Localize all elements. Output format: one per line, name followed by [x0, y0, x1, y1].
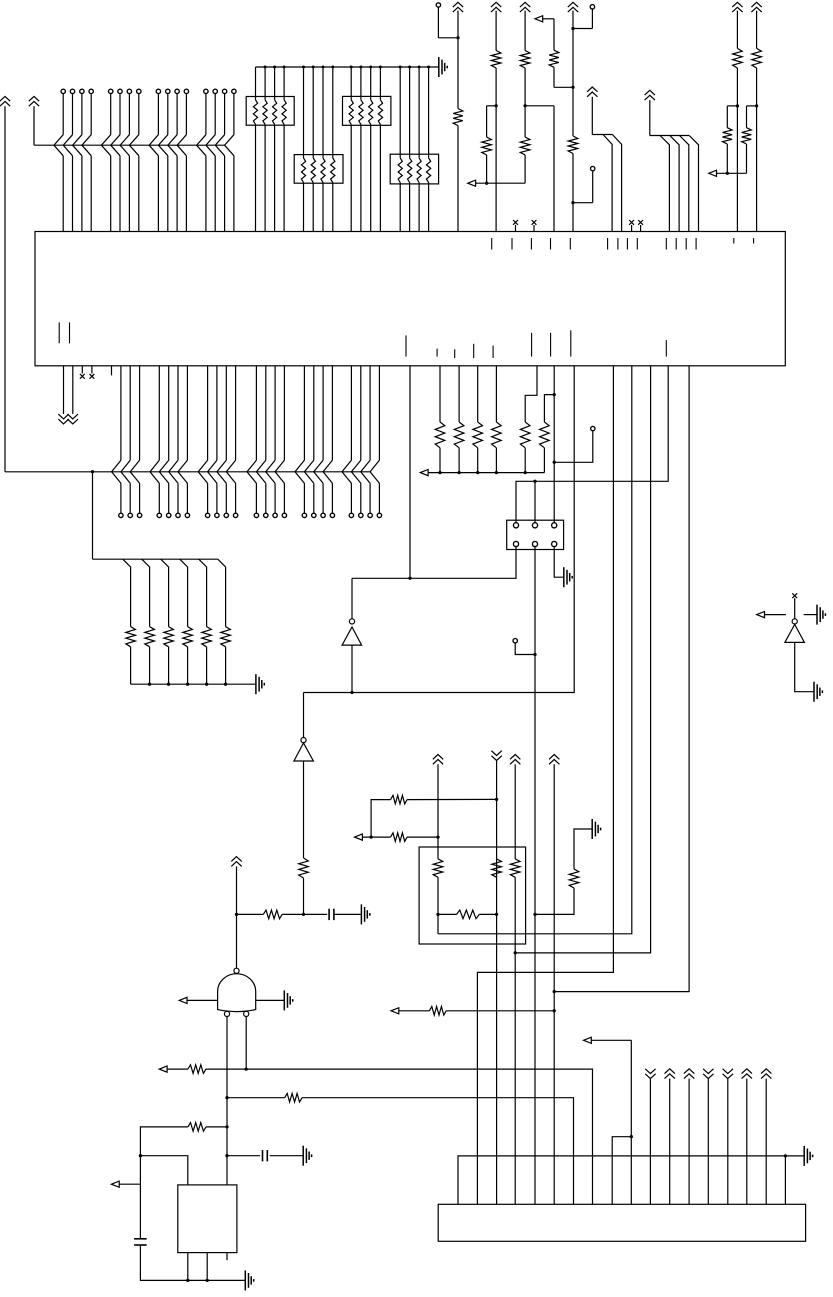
wire bus1 horizontal rail	[34, 144, 225, 146]
node junction V5 branch	[736, 104, 739, 107]
resistor RN1-2 wire	[263, 66, 267, 232]
node junction V1/J2	[456, 36, 459, 39]
power flag VEE bottom 5	[723, 1069, 733, 1205]
wire with bus entry U1 to P2-22	[361, 366, 370, 513]
wire U1 pin668 to X1	[516, 366, 668, 523]
resistor RN2-4 wire	[331, 66, 335, 232]
power flag VCC V3	[520, 2, 530, 12]
wire U5 input B down	[245, 1017, 248, 1071]
wire V6 upper	[756, 11, 758, 49]
resistor RN1-4 wire	[282, 66, 286, 232]
wire inputA to pin574 net	[227, 1097, 285, 1099]
wire with bus entry U1 to P2-10	[217, 366, 226, 513]
resistor R18	[473, 422, 483, 448]
resistor network RN4 box	[390, 154, 438, 184]
resistor RN2-2 wire	[311, 66, 315, 232]
ground GND C2	[303, 1146, 311, 1166]
wire R5 to net arrow	[524, 155, 526, 183]
wire with bus entry P1-3 to U1	[73, 94, 82, 232]
connector pin circle J4	[573, 166, 595, 202]
connector pin circle P2-16	[302, 513, 306, 517]
wire fan2 branch pin 679	[670, 136, 679, 232]
wire gnd chain	[574, 829, 592, 869]
power flag VCC bottom 7	[761, 1069, 771, 1205]
resistor network RN2 box	[294, 155, 343, 184]
wire X1-4 down to inverter net	[352, 547, 516, 579]
ground GND X1-6	[564, 567, 572, 587]
wire with bus entry P1-13 to U1	[197, 94, 206, 232]
power flag VCC col554	[549, 755, 559, 1205]
wire U1 pin410 down	[409, 366, 411, 579]
connector pin circle P1-3	[80, 89, 84, 93]
pin number tick bottom x532	[531, 333, 533, 357]
node junction col496/R24	[495, 798, 498, 801]
node junction J6/X1-5 net	[533, 653, 536, 656]
wire with bus entry P1-6 to U1	[111, 94, 120, 232]
wire fan1 branch pin 621	[612, 135, 621, 232]
wire U1 pin554 down	[553, 366, 555, 523]
wire with bus entry P1-8 to U1	[129, 94, 138, 232]
power flag VCC U5	[231, 857, 241, 969]
wire with bus entry U1 to P2-13	[256, 366, 265, 513]
connector pin circle P2-1	[119, 513, 123, 517]
wire U1 pin537 jog	[525, 366, 537, 422]
wire C1 to gnd	[334, 913, 362, 915]
jumper pin circle X1-2	[532, 523, 537, 528]
wire branch to pin9	[612, 1137, 631, 1205]
group box middle	[419, 847, 525, 944]
resistor R1	[453, 109, 463, 126]
wire with bus entry U1 to P2-15	[275, 366, 284, 513]
connector pin circle P1-11	[175, 89, 179, 93]
wire pulldown gnd rail	[131, 683, 256, 686]
crystal oscillator Y1 body	[178, 1185, 237, 1253]
wire col515 lower	[514, 877, 516, 1204]
resistor R16	[435, 422, 445, 448]
pin number tick top x676	[675, 238, 677, 250]
power flag VEE bottom 4	[703, 1069, 713, 1205]
wire with bus entry U1 to P2-11	[226, 366, 235, 513]
wire R20 to rail	[524, 448, 527, 474]
connector pin circle P2-12	[254, 513, 258, 517]
net arrow left y1011	[391, 1008, 429, 1014]
wire V2 upper	[495, 11, 497, 51]
power flag VCC bottom 2	[665, 1069, 675, 1205]
wire tap R12	[123, 559, 131, 626]
wire with bus entry U1 to P2-5	[159, 366, 168, 513]
connector pin circle P2-19	[330, 513, 334, 517]
node junction input A net2	[225, 1125, 228, 1128]
resistor R30	[569, 869, 579, 888]
resistor R25	[391, 833, 408, 842]
connector pin circle P2-14	[273, 513, 277, 517]
wire R17 to gnd rail	[225, 647, 227, 684]
node junction col554 branch	[553, 990, 556, 993]
resistor R28	[510, 859, 520, 877]
ground GND C1	[361, 904, 369, 924]
node junction V4/J3	[571, 27, 574, 30]
wire U4 input to gnd	[795, 642, 814, 691]
resistor RN3-2 wire	[359, 66, 363, 232]
pin number tick top x550	[550, 238, 552, 250]
wire tap R17	[218, 559, 226, 626]
no-connect stub U1 bottom a	[80, 366, 85, 379]
pin number tick top x618	[617, 238, 619, 250]
wire tap R14	[161, 559, 169, 626]
resistor R33 wire	[206, 1126, 227, 1128]
pin number tick top x686	[685, 238, 687, 250]
power flag VCC V5	[732, 2, 742, 12]
resistor R13	[145, 627, 155, 647]
resistor R15	[183, 627, 193, 647]
connector pin circle P1-9	[156, 89, 160, 93]
power flag VEE col496	[491, 751, 501, 1205]
wire V1 to U1	[457, 126, 459, 232]
wire V4 upper	[572, 11, 574, 136]
power flag VCC far left	[0, 96, 10, 471]
net arrow left U4	[757, 612, 786, 618]
power flag VCC fan1	[587, 87, 597, 135]
power flag VEE below U1 a	[58, 366, 68, 424]
ground GND U4 right	[804, 605, 826, 625]
wire with bus entry U1 to P2-12	[247, 366, 256, 513]
wire R34 to C1	[282, 913, 327, 916]
power flag VCC V4	[568, 2, 578, 12]
connector pin circle P2-15	[282, 513, 286, 517]
ground GND U5 right	[284, 990, 292, 1010]
connector pin circle P2-20	[349, 513, 353, 517]
pin number tick bottom x493	[492, 346, 494, 358]
power flag VCC fan2	[645, 90, 655, 135]
ground GND U4 input	[814, 682, 822, 702]
resistor RN2-3 wire	[321, 66, 325, 232]
capacitor C1	[329, 909, 334, 920]
resistor network RN1 box	[246, 97, 294, 126]
node junction input A net3	[225, 1154, 228, 1157]
pin number tick top x637	[636, 238, 638, 250]
net arrow left y183	[468, 180, 525, 186]
wire riser to R24	[371, 800, 391, 838]
resistor R22	[299, 858, 309, 878]
wire V5 upper	[736, 11, 738, 49]
power flag VCC bus1	[29, 96, 39, 145]
connector pin circle P1-2	[70, 89, 74, 93]
wire U5 to gnd	[256, 999, 285, 1001]
net arrow left U5	[179, 997, 217, 1003]
wire V2 branch to R4	[487, 106, 497, 137]
pin number tick bottom x666	[665, 340, 667, 357]
wire X1-5 down	[534, 547, 536, 1205]
resistor R11	[742, 128, 752, 144]
no-connect stub U4 output	[792, 593, 797, 618]
node junction V6 branch	[755, 104, 758, 107]
wire bottom connector pin18	[784, 1156, 786, 1204]
connector pin circle P2-17	[312, 513, 316, 517]
node junction pin9 branch	[630, 1135, 633, 1138]
wire U2 output stub	[351, 578, 353, 618]
resistor R27 wire	[438, 910, 497, 919]
jumper block X1 body	[507, 520, 564, 549]
wire U1 pin to R17	[458, 366, 460, 422]
connector pin circle P2-11	[233, 513, 237, 517]
resistor R31	[188, 1065, 206, 1074]
ground GND Y1	[245, 1270, 253, 1290]
wire with bus entry U1 to P2-17	[304, 366, 313, 513]
net arrow left y837	[355, 834, 391, 840]
wire V3 branch to U1 pin	[525, 106, 554, 232]
connector pin circle P2-3	[137, 513, 141, 517]
wire U1 pin574 to inverter row	[304, 366, 575, 693]
wire with bus entry U1 to P2-3	[130, 366, 139, 513]
capacitor C3	[134, 1239, 147, 1245]
connector pin circle P2-22	[368, 513, 372, 517]
pin number tick top x754	[753, 238, 755, 244]
wire R16 to rail	[438, 448, 441, 474]
wire U1 pin to R16	[439, 366, 441, 422]
wire pull-up rail	[256, 66, 439, 68]
pin number tick bottom x474	[473, 344, 475, 358]
wire U1 pin613 to bottom	[477, 366, 613, 1205]
connector pin circle P1-6	[118, 89, 122, 93]
pin number tick top x734	[733, 238, 735, 244]
connector pin circle P2-8	[205, 513, 209, 517]
wire R4 to net arrow	[485, 155, 488, 185]
power flag VCC col515	[510, 755, 520, 859]
no-connect stub U1 top x534	[532, 220, 537, 232]
connector pin circle J5	[554, 426, 595, 462]
resistor R7	[568, 136, 578, 154]
wire with bus entry U1 to P2-6	[169, 366, 178, 513]
wire with bus entry P1-9 to U1	[149, 94, 158, 232]
wire col515 to U1 pin650	[515, 366, 650, 953]
wire V3 upper	[524, 11, 526, 51]
wire V4 lower to U1	[572, 154, 574, 232]
wire tap R15	[180, 559, 188, 626]
wire R9 to arrow	[726, 144, 728, 173]
resistor R16	[202, 627, 212, 647]
node junction input A net1	[225, 1096, 228, 1099]
wire with bus entry U1 to P2-9	[208, 366, 217, 513]
wire V5 branch	[727, 106, 737, 128]
connector pin circle P1-1	[61, 89, 65, 93]
net arrow left y1040	[584, 1037, 632, 1043]
connector pin circle P2-21	[359, 513, 363, 517]
wire with bus entry P1-10 to U1	[158, 94, 167, 232]
wire fan1 branch pin 612	[603, 135, 612, 232]
inverter U4	[785, 619, 805, 643]
wire C3 to gnd rail	[140, 1245, 187, 1280]
nand gate U5	[218, 968, 256, 1016]
pin number tick left a	[58, 322, 60, 343]
wire with bus entry P1-4 to U1	[82, 94, 91, 232]
wire fan2 branch pin 669	[660, 136, 669, 232]
resistor R29	[429, 1007, 446, 1016]
pin number tick bottom x571	[570, 330, 572, 356]
wire riser to Y1 pin1	[140, 1156, 187, 1185]
pin number tick bottom x455	[454, 349, 456, 358]
wire R24 to col496	[407, 798, 497, 800]
connector P3 body	[438, 1204, 805, 1241]
wire with bus entry U1 to P2-14	[266, 366, 275, 513]
wire V3 middle	[524, 68, 526, 137]
wire with bus entry U1 to P2-21	[351, 366, 360, 513]
wire R32 to bottom connector	[302, 1098, 574, 1205]
resistor R34	[263, 910, 282, 919]
wire col554 to U1 pin689	[554, 366, 689, 992]
jumper pin circle X1-3	[552, 523, 557, 528]
connector pin circle P1-15	[222, 89, 226, 93]
jumper pin circle X1-5	[532, 541, 537, 546]
wire with bus entry P1-11 to U1	[168, 94, 177, 232]
wire col438 lower	[436, 877, 439, 934]
wire R15 to gnd rail	[187, 647, 189, 684]
resistor RN3-3 wire	[369, 66, 373, 232]
connector pin circle P1-13	[204, 89, 208, 93]
resistor R23	[433, 859, 443, 877]
wire with bus entry P1-15 to U1	[215, 94, 224, 232]
resistor R24	[391, 795, 408, 804]
power flag VCC col438	[433, 755, 443, 859]
node junction V4/R6	[571, 86, 574, 89]
pin number tick bottom x551	[550, 333, 552, 357]
wire R29 to col554	[446, 1009, 556, 1012]
resistor RN1-1 wire	[253, 67, 257, 232]
net arrow left y19	[535, 16, 554, 22]
wire X1-2 up	[534, 481, 536, 522]
node junction pin554/J5	[553, 461, 556, 464]
wire with bus entry U1 to P2-2	[121, 366, 130, 513]
no-connect stub U1 top x632	[629, 220, 634, 232]
wire V2 to U1	[495, 68, 497, 232]
pin number tick top x531	[530, 238, 532, 250]
node junction V2 branch	[494, 104, 497, 107]
pin number tick top x696	[695, 238, 697, 250]
connector pin circle P2-7	[185, 513, 189, 517]
node junction U5 power	[235, 913, 238, 916]
power flag VCC V2	[491, 2, 501, 12]
wire Y1 pin3 down	[186, 1253, 189, 1282]
node junction col496 resistor row	[495, 913, 498, 916]
pin number tick top x570	[569, 238, 571, 250]
wire tap R13	[142, 559, 150, 626]
wire with bus entry P1-5 to U1	[101, 94, 110, 232]
resistor R32	[285, 1093, 302, 1102]
wire U3 output stub	[303, 693, 305, 738]
wire R12 to gnd rail	[130, 647, 132, 684]
connector pin circle P1-12	[184, 89, 188, 93]
wire V1 upper	[457, 11, 459, 109]
ground GND pulldown rail	[256, 674, 264, 694]
wire junction to R34	[237, 913, 264, 915]
node junction U2 input	[350, 691, 353, 694]
connector pin circle P1-5	[109, 89, 113, 93]
wire R11 to arrow	[746, 144, 748, 173]
resistor R26	[492, 859, 502, 877]
wire U5 input A down	[226, 1017, 228, 1185]
power flag VCC V6	[751, 2, 761, 12]
resistor R5	[520, 137, 530, 155]
wire V6 branch	[747, 106, 757, 128]
wire R22 to junction	[303, 878, 305, 914]
wire inputA to C2	[227, 1155, 260, 1157]
wire R16 to gnd rail	[206, 647, 208, 684]
inverter U2	[342, 619, 362, 645]
power flag VCC bottom 3	[684, 1069, 694, 1205]
IC U1 body	[35, 232, 785, 366]
wire far-left vertical to bus2	[5, 471, 370, 473]
pin number tick bottom x437	[436, 349, 438, 357]
connector pin circle P2-10	[224, 513, 228, 517]
node junction V4/J4	[571, 201, 574, 204]
resistor RN4-3 wire	[417, 66, 421, 232]
connector pin circle P1-16	[232, 89, 236, 93]
ground GND rail right end	[439, 57, 447, 77]
resistor R17	[221, 627, 231, 647]
node junction bus2 tap	[91, 470, 94, 473]
power flag VCC bottom 6	[742, 1069, 752, 1205]
pin number tick top x608	[607, 238, 609, 250]
wire jog to R21	[544, 395, 554, 422]
wire C2 to gnd	[270, 1155, 304, 1157]
resistor RN2-1 wire	[301, 66, 305, 232]
resistor R21	[540, 422, 550, 448]
resistor RN4-4 wire	[426, 66, 430, 232]
connector pin circle P1-4	[89, 89, 93, 93]
wire with bus entry U1 to P2-16	[295, 366, 304, 513]
wire R17 to rail	[457, 448, 460, 474]
resistor R17	[454, 422, 464, 448]
wire bus2 tap down	[93, 472, 218, 559]
jumper pin circle X1-1	[513, 523, 518, 528]
net arrow left y173	[709, 170, 747, 176]
resistor RN3-4 wire	[378, 66, 382, 232]
resistor RN4-2 wire	[408, 66, 412, 232]
wire R21 to rail	[543, 448, 545, 473]
connector pin circle P2-4	[157, 513, 161, 517]
resistor R33	[188, 1123, 206, 1132]
no-connect stub U1 top x641	[638, 220, 643, 232]
connector pin circle P1-8	[137, 89, 141, 93]
connector pin circle P2-13	[264, 513, 268, 517]
resistor network RN3 box	[343, 96, 391, 125]
wire R25 to col438	[407, 835, 440, 838]
connector pin circle P2-5	[167, 513, 171, 517]
pin number tick left b	[69, 322, 71, 343]
wire with bus entry U1 to P2-7	[178, 366, 187, 513]
wire U1 pin to R18	[477, 366, 479, 422]
node junction pin554 jog	[553, 393, 556, 396]
resistor RN4-1 wire	[398, 66, 402, 232]
pin number tick bottom x406	[405, 335, 407, 356]
resistor R9	[723, 128, 733, 144]
connector pin circle J3	[573, 5, 595, 29]
wire R19 to rail	[495, 448, 498, 474]
resistor R4	[482, 137, 492, 155]
power flag VEE below U1 b	[68, 366, 78, 424]
power flag VCC V1	[453, 2, 463, 12]
wire R6 to V4	[554, 67, 573, 87]
wire R18 to rail	[476, 448, 479, 474]
pin number tick top x512	[511, 238, 513, 250]
wire R31 to U1 pin593 net	[206, 1069, 593, 1204]
wire with bus entry P1-1 to U1	[54, 94, 63, 232]
wire with bus entry U1 to P2-19	[323, 366, 332, 513]
connector pin circle P2-9	[215, 513, 219, 517]
no-connect stub U1 top x516	[513, 220, 518, 232]
wire R14 to gnd rail	[168, 647, 170, 684]
resistor R14	[164, 627, 174, 647]
wire with bus entry U1 to P2-20	[342, 366, 351, 513]
